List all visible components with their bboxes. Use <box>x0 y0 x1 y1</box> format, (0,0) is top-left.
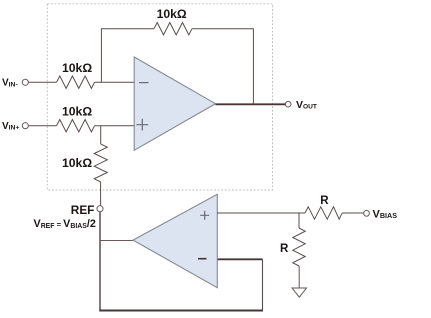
wire feedback right vertical <box>262 259 264 310</box>
resistor R_in+ 10k zigzag <box>57 120 95 132</box>
wire feedback left vertical <box>101 29 154 82</box>
svg-text:10kΩ: 10kΩ <box>62 156 92 170</box>
svg-text:REF: REF <box>71 203 95 217</box>
ground symbol <box>292 288 306 297</box>
svg-text:10kΩ: 10kΩ <box>62 61 92 75</box>
U1 plus symbol <box>136 119 148 131</box>
svg-text:10kΩ: 10kΩ <box>62 104 92 118</box>
svg-text:VOUT: VOUT <box>296 99 317 111</box>
svg-text:10kΩ: 10kΩ <box>157 7 187 21</box>
wire from R_in+ to op-amp non-inverting input <box>95 125 135 127</box>
wire divider node down to R bottom <box>298 213 300 228</box>
dashed boundary box of difference amplifier <box>47 4 272 190</box>
op-amp U2 (buffer) <box>133 194 217 287</box>
wire VIN+ input <box>28 125 56 127</box>
wire bottom feedback horizontal <box>99 310 263 312</box>
wire from non-inverting node down to vertical resistor <box>100 126 102 144</box>
terminal circle VBIAS <box>364 210 370 216</box>
U2 minus symbol <box>198 258 207 260</box>
svg-text:VIN+: VIN+ <box>2 121 19 132</box>
wire from R bottom to ground <box>298 266 300 288</box>
terminal circle VIN+ <box>22 123 28 129</box>
wire U2 output to REF line <box>100 240 133 242</box>
wire into U2 inverting input <box>217 258 262 260</box>
svg-text:VIN-: VIN- <box>2 78 18 89</box>
resistor R_in- 10k zigzag <box>57 76 95 88</box>
wire from R to VBIAS terminal <box>342 212 364 214</box>
svg-text:R: R <box>280 243 289 255</box>
wire U2 non-inverting input to divider node <box>217 212 305 214</box>
U2 plus symbol <box>200 211 209 220</box>
resistor R_f 10k zigzag <box>154 23 192 35</box>
svg-text:R: R <box>320 195 329 207</box>
wire from R_in- to op-amp inverting input <box>95 81 135 83</box>
terminal circle VOUT <box>285 101 291 107</box>
op-amp U1 (difference amp) <box>134 57 215 150</box>
U1 minus symbol <box>139 82 149 84</box>
wire VIN- input <box>28 81 56 83</box>
svg-text:VREF = VBIAS/2: VREF = VBIAS/2 <box>34 218 96 230</box>
terminal circle VIN- <box>22 79 28 85</box>
wire REF vertical down to bottom corner <box>99 212 101 311</box>
resistor R top zigzag <box>305 207 342 219</box>
svg-text:VBIAS: VBIAS <box>373 208 398 220</box>
resistor R_g 10k vertical zigzag <box>94 144 107 182</box>
wire output to VOUT terminal <box>216 103 286 105</box>
resistor R bottom vertical zigzag <box>293 228 305 266</box>
wire from R_g to REF node <box>100 182 102 206</box>
wire feedback right + down to output <box>192 29 253 105</box>
node REF circle <box>97 206 103 212</box>
